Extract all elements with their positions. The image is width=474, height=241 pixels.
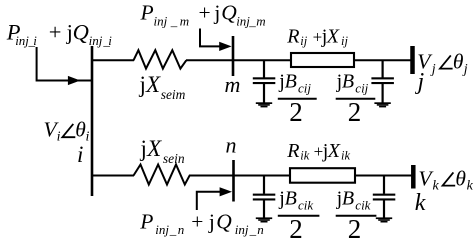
- ground (bottom-left capacitor): [256, 217, 272, 222]
- svg-text:k: k: [433, 179, 440, 194]
- label jB_cij/2 (right fraction): [336, 70, 376, 126]
- svg-text:inj: inj: [15, 33, 29, 48]
- bus n: [232, 160, 235, 202]
- svg-text:B: B: [342, 70, 354, 92]
- svg-text:m: m: [225, 72, 241, 97]
- svg-text:2: 2: [289, 214, 303, 241]
- bus k: [411, 165, 416, 189]
- label P_inj_i + jQ_inj_i: [6, 19, 112, 48]
- label jX_seim: [139, 72, 186, 102]
- label m (bus m): [225, 72, 241, 97]
- svg-text:i: i: [57, 129, 61, 144]
- inductor jX_sein (zigzag): [134, 165, 191, 185]
- label Rik + jXik: [286, 140, 350, 162]
- svg-text:Q: Q: [216, 209, 232, 233]
- svg-text:2: 2: [289, 97, 303, 127]
- svg-text:cij: cij: [298, 80, 311, 95]
- label i (bus i): [77, 142, 83, 167]
- svg-text:inj: inj: [236, 13, 250, 28]
- svg-text:P: P: [139, 209, 153, 233]
- wire bus i to inductor jX_sein: [92, 175, 134, 177]
- svg-text:i: i: [33, 33, 37, 48]
- svg-text:+: +: [49, 19, 62, 44]
- inductor jX_seim (zigzag): [134, 50, 187, 68]
- svg-text:2: 2: [348, 97, 362, 127]
- injection arrow P_inj_i (leader + arrowhead into bus i): [37, 47, 92, 85]
- wire bus m to box Rij: [233, 59, 291, 61]
- svg-text:X: X: [326, 26, 340, 48]
- label n (bus n): [226, 133, 237, 158]
- svg-text:n: n: [257, 222, 264, 237]
- capacitor jBcij/2 right: [371, 60, 394, 102]
- bus j: [410, 46, 415, 74]
- svg-text:_: _: [248, 13, 256, 28]
- svg-text:inj: inj: [154, 13, 168, 28]
- wire bus n to box Rik: [234, 175, 291, 177]
- svg-text:ij: ij: [300, 34, 307, 48]
- label j (bus j): [415, 69, 425, 95]
- capacitor jBcik/2 right: [373, 176, 396, 218]
- svg-text:θ: θ: [455, 167, 466, 191]
- svg-text:ik: ik: [341, 148, 350, 162]
- svg-text:m: m: [256, 13, 265, 28]
- svg-text:n: n: [178, 222, 185, 237]
- impedance box Rij+jXij: [291, 53, 354, 67]
- svg-text:+: +: [199, 0, 211, 24]
- svg-text:j: j: [139, 72, 146, 97]
- injection arrow P_inj_m (leader + arrowhead into bus m): [200, 29, 232, 52]
- svg-text:i: i: [86, 129, 90, 144]
- svg-text:sein: sein: [163, 151, 185, 166]
- svg-text:_: _: [169, 222, 177, 237]
- ground (bottom-right capacitor): [376, 217, 392, 222]
- svg-text:ik: ik: [300, 148, 309, 162]
- impedance box Rik+jXik: [290, 168, 355, 183]
- svg-text:Q: Q: [221, 0, 237, 24]
- svg-text:ij: ij: [341, 34, 348, 48]
- svg-text:j: j: [208, 209, 215, 233]
- svg-text:j: j: [140, 136, 147, 161]
- capacitor jBcij/2 left: [253, 60, 275, 102]
- injection arrow P_inj_n (leader + arrowhead into bus n): [197, 187, 232, 210]
- svg-text:R: R: [286, 140, 299, 162]
- label V_k angle theta_k: [418, 167, 473, 194]
- svg-text:+: +: [191, 209, 203, 233]
- wire inductor to bus m: [186, 59, 232, 61]
- svg-text:_: _: [170, 13, 178, 28]
- svg-text:inj: inj: [89, 33, 103, 48]
- svg-text:j: j: [213, 0, 220, 24]
- svg-text:X: X: [327, 140, 341, 162]
- svg-text:i: i: [108, 33, 112, 48]
- label jB_cik/2 (right fraction): [336, 188, 377, 241]
- svg-text:inj: inj: [155, 222, 169, 237]
- svg-text:X: X: [146, 136, 162, 161]
- svg-text:R: R: [286, 26, 299, 48]
- svg-text:cik: cik: [298, 198, 313, 213]
- svg-text:i: i: [77, 142, 83, 167]
- wire box Rij to bus j: [354, 59, 411, 61]
- label V_i angle theta_i: [44, 117, 90, 144]
- svg-text:inj: inj: [235, 222, 249, 237]
- svg-text:n: n: [226, 133, 237, 158]
- svg-text:B: B: [285, 70, 297, 92]
- svg-text:m: m: [180, 13, 189, 28]
- svg-text:cij: cij: [355, 80, 368, 95]
- svg-text:_: _: [249, 222, 257, 237]
- label k (bus k): [415, 190, 426, 216]
- label Rij + jXij: [286, 26, 348, 48]
- label P_inj_m + jQ_inj_m: [140, 0, 266, 28]
- svg-text:Q: Q: [73, 19, 89, 44]
- capacitor jBcik/2 left: [253, 176, 275, 218]
- svg-text:seim: seim: [161, 87, 186, 102]
- wire box Rik to bus k: [355, 175, 412, 177]
- ground (top-left capacitor): [256, 102, 272, 107]
- label jB_cij/2 (left fraction): [278, 70, 317, 126]
- label V_j angle theta_j: [417, 50, 468, 77]
- svg-text:k: k: [467, 179, 474, 194]
- bus i: [91, 46, 94, 196]
- svg-text:B: B: [285, 188, 297, 210]
- wire inductor to bus n: [190, 175, 233, 177]
- bus m: [232, 36, 235, 76]
- svg-text:k: k: [415, 190, 426, 216]
- svg-text:2: 2: [348, 214, 362, 241]
- label jB_cik/2 (left fraction): [278, 188, 320, 241]
- svg-text:B: B: [342, 188, 354, 210]
- svg-text:P: P: [140, 0, 154, 24]
- label P_inj_n + jQ_inj_n: [139, 209, 263, 237]
- svg-text:θ: θ: [453, 50, 464, 74]
- wire bus i to inductor jX_seim: [92, 59, 134, 61]
- svg-text:cik: cik: [355, 198, 370, 213]
- label jX_sein: [140, 136, 185, 166]
- svg-text:X: X: [145, 72, 161, 97]
- ground (top-right capacitor): [374, 102, 390, 107]
